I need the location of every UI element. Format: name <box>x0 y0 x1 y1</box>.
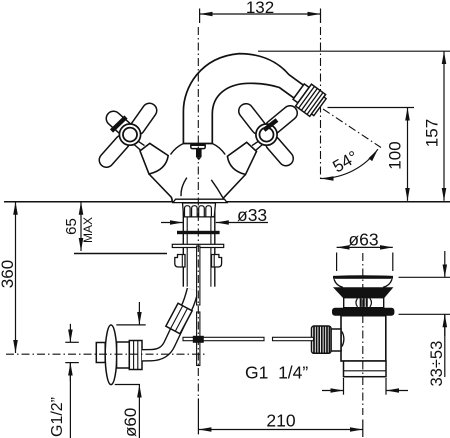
dimension diam 33 shank <box>161 222 268 224</box>
shank outer walls <box>182 203 184 287</box>
svg-text:G1/2”: G1/2” <box>49 397 66 437</box>
right handle index strip <box>264 120 277 130</box>
dimension 132 top <box>200 9 321 24</box>
drain axis <box>362 253 364 415</box>
dimension 33:53 right <box>399 251 450 377</box>
left handle index strip <box>112 117 127 131</box>
below-deck mounting group <box>172 203 223 366</box>
right mounting nut <box>212 255 222 268</box>
drain knurled knob <box>312 326 332 353</box>
centre axis spout outlet <box>320 27 322 180</box>
wall flange disc <box>105 325 117 385</box>
dome internal curve right <box>211 180 223 198</box>
wall union axis <box>6 353 205 355</box>
shank inner walls <box>186 203 188 287</box>
drain funnel neck <box>333 279 393 288</box>
right handle lobes <box>246 111 290 159</box>
right handle hub <box>256 124 277 145</box>
body fillet right <box>212 144 225 155</box>
horizontal pop-up linkage rod seg2 <box>273 337 314 340</box>
rubber washer <box>177 231 220 234</box>
drain flange disc <box>332 308 394 316</box>
svg-text:132: 132 <box>246 0 274 17</box>
svg-text:33÷53: 33÷53 <box>428 341 446 387</box>
right dome silhouette <box>223 175 246 202</box>
dimension 360 left <box>15 202 17 353</box>
left valve cone <box>140 143 168 174</box>
wall union group <box>96 325 142 385</box>
metal washer plate <box>172 244 223 247</box>
dimension 100 right <box>328 108 415 201</box>
svg-text:157: 157 <box>423 119 442 147</box>
drain body <box>341 316 386 361</box>
drain funnel rim <box>333 275 393 279</box>
svg-text:ø33: ø33 <box>237 205 267 225</box>
dome internal curve left <box>181 178 187 197</box>
drain knurled collar <box>344 298 384 308</box>
base rim <box>173 199 227 202</box>
left handle hub <box>119 124 140 145</box>
dimension diam 63 drain <box>337 247 393 271</box>
castellated ring <box>183 203 216 217</box>
left mounting nut <box>175 255 185 268</box>
svg-text:ø60: ø60 <box>121 408 140 437</box>
svg-text:100: 100 <box>386 141 405 169</box>
horizontal pop-up linkage rod seg1 <box>183 337 264 340</box>
neck lines left handle <box>138 141 145 146</box>
deck reference line <box>4 201 450 203</box>
spout <box>183 54 303 144</box>
drain tailpiece <box>344 361 387 377</box>
union hex nut <box>129 341 142 370</box>
dimension 210 bottom <box>198 398 362 437</box>
svg-text:360: 360 <box>0 260 17 288</box>
drain cone under funnel <box>333 287 393 297</box>
pop-up drain group <box>312 275 395 376</box>
svg-text:G1 1/4”: G1 1/4” <box>245 363 308 383</box>
pop-up vertical rod seg1 <box>197 246 200 305</box>
dimension G1/2" wall stub <box>65 324 79 438</box>
drain rod housing <box>331 329 341 351</box>
centre axis faucet <box>197 27 199 397</box>
svg-text:210: 210 <box>266 411 295 431</box>
spray angle axis 54deg <box>323 109 381 148</box>
body dome fill <box>161 143 235 202</box>
dimension G1 1/4" tailpiece <box>322 378 408 395</box>
svg-text:MAX: MAX <box>81 217 95 243</box>
dimension 65 MAX left <box>74 202 167 254</box>
svg-text:ø63: ø63 <box>348 230 378 250</box>
pop-up vertical rod seg2 <box>197 312 200 366</box>
rod clamp <box>193 336 204 343</box>
svg-text:65: 65 <box>63 218 80 235</box>
union body <box>117 342 130 368</box>
left dome silhouette <box>149 174 172 202</box>
faucet body group <box>107 54 304 203</box>
left handle lobes <box>107 111 150 161</box>
hose compression nut <box>166 303 192 333</box>
dimension diam 60 flange <box>115 302 146 438</box>
angle arc 54deg <box>321 149 378 178</box>
aerator group <box>291 81 328 118</box>
pop-up rod knob <box>191 144 205 149</box>
supply hose tube <box>142 290 193 356</box>
wall pipe stub G1/2 <box>96 343 105 363</box>
right valve cone <box>227 142 256 174</box>
dimension 157 right <box>258 51 450 201</box>
neck lines right handle <box>252 141 259 146</box>
body fillet left <box>171 144 184 155</box>
